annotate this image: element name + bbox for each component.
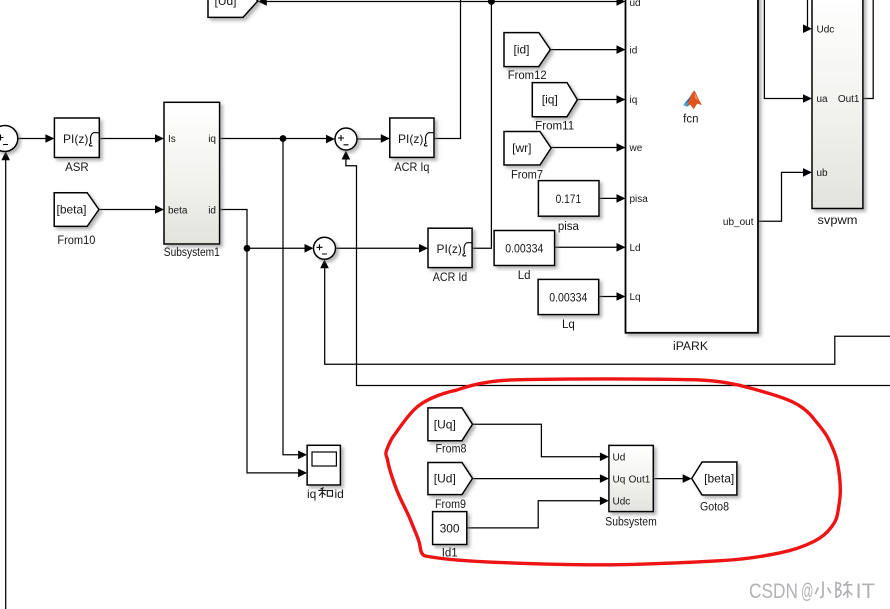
wire From11 to iPARK iq [577, 99, 622, 101]
svg-text:ub_out: ub_out [723, 217, 754, 228]
svg-text:Lq: Lq [562, 319, 575, 331]
from tag From10 beta [54, 193, 99, 227]
annotation red circle [386, 379, 840, 565]
arrowhead up into sum1 [342, 151, 351, 160]
sum signs sum1 [338, 135, 349, 145]
port text Subsystem1 [168, 134, 216, 216]
wire sum2 to ACR Id [336, 247, 425, 249]
sum signs sum2 [317, 244, 328, 254]
arrowhead into Subsystem1 Is [155, 134, 164, 143]
svg-text:pisa: pisa [630, 194, 649, 205]
svg-text:[id]: [id] [513, 43, 529, 57]
svg-text:beta: beta [168, 205, 188, 216]
svg-text:0.171: 0.171 [556, 192, 582, 206]
svg-text:From11: From11 [535, 120, 574, 132]
wire From10 to Subsystem1 beta [99, 209, 160, 211]
junction node top bus [488, 0, 495, 5]
from tag From12 id [504, 33, 550, 67]
arrowhead into iPARK iq [617, 95, 626, 104]
sum signs sumL [0, 135, 349, 255]
watermark chen glyph [836, 581, 852, 598]
wire id branch to sum2 [247, 247, 310, 249]
svg-text:Is: Is [168, 134, 176, 145]
arrowhead into iPARK Ld [617, 243, 626, 252]
svg-text:From7: From7 [511, 169, 543, 181]
svg-text:300: 300 [440, 522, 460, 536]
goto tag Goto8 beta [692, 462, 737, 495]
svg-text:From10: From10 [57, 235, 95, 247]
svg-text:CSDN: CSDN [749, 580, 798, 603]
junction node id branch [244, 245, 251, 252]
svg-text:ua: ua [817, 94, 829, 105]
svg-text:[iq]: [iq] [542, 93, 558, 107]
arrowhead into iPARK Lq [617, 292, 626, 301]
svg-text:[beta]: [beta] [56, 203, 86, 217]
wire iq branch down to scope in1 [283, 139, 303, 455]
wire Subsystem Out1 to Goto8 [653, 478, 688, 480]
svg-text:svpwm: svpwm [818, 215, 858, 227]
port text Subsystem bottom [613, 453, 651, 508]
wire ACR Iq output up to Uq (offscreen) [434, 0, 461, 139]
svg-text:ub: ub [817, 168, 829, 179]
svg-text:Ud: Ud [613, 453, 626, 464]
svg-text:Lq: Lq [630, 292, 641, 303]
block ACR Id PI(z) [428, 228, 472, 267]
wire From12 to iPARK id [550, 49, 622, 51]
block constant 300 Id1 [433, 512, 467, 545]
arrowhead into ASR [45, 134, 54, 143]
arrowhead up into sum2 [320, 259, 329, 268]
MATLAB fcn logo [683, 90, 702, 109]
sum block speed error (left edge) [0, 126, 18, 152]
block constant 0.00334 Lq [538, 279, 599, 314]
svg-text:iq: iq [630, 95, 638, 106]
arrowhead into svpwm ub [803, 168, 812, 177]
svg-text:Udc: Udc [817, 24, 835, 35]
svg-text:[Ud]: [Ud] [434, 471, 456, 485]
arrowhead into sum2 left [305, 244, 314, 253]
block iPARK MATLAB function [626, 0, 759, 333]
svg-text:id: id [630, 45, 638, 56]
wire ASR to Subsystem1 Is [99, 138, 160, 140]
integral glyph ACR Iq [424, 133, 433, 146]
arrowhead into svpwm ua [803, 94, 812, 103]
svg-text:[Uq]: [Uq] [434, 417, 456, 431]
block constant 0.00334 Ld [494, 231, 554, 266]
svg-text:Subsystem1: Subsystem1 [164, 247, 220, 259]
integral glyph ACR Id [463, 243, 472, 256]
sum block sum2 (id error) [314, 237, 336, 259]
wire pisa const to iPARK [599, 197, 622, 199]
junction node iq branch [280, 135, 287, 142]
from tag From8 Uq [428, 408, 473, 441]
arrowhead into Subsystem Ud [600, 453, 609, 462]
wire Subsystem1 id down to scope in2 [220, 210, 303, 473]
wire ua feed from top to svpwm [764, 0, 808, 99]
wire From7 to iPARK we [551, 147, 622, 149]
block ASR PI(z) [54, 118, 99, 158]
svg-text:Out1: Out1 [629, 474, 651, 485]
svg-text:ACR Id: ACR Id [433, 272, 468, 284]
port text iPARK [629, 0, 754, 303]
from tag From7 wr [504, 132, 551, 166]
svg-text:ud: ud [630, 0, 641, 9]
arrowhead into Goto Ud (points left) [258, 0, 267, 6]
from tag From11 iq [532, 83, 577, 117]
arrowhead into iPARK we [617, 143, 626, 152]
wire Udc feed from top to svpwm [808, 0, 809, 29]
arrowhead into Goto8 [683, 474, 692, 483]
arrowhead into scope in1 [298, 451, 307, 460]
arrowhead into iPARK id [617, 45, 626, 54]
arrowhead into iPARK ud [617, 0, 626, 6]
block ACR Iq PI(z) [390, 118, 434, 157]
svg-text:Ld: Ld [518, 270, 531, 282]
svg-text:iq: iq [208, 134, 216, 145]
svg-text:Uq: Uq [613, 474, 626, 485]
block constant 0.171 pisa [538, 181, 599, 217]
wire sumL to ASR [18, 138, 51, 140]
svg-text:ASR: ASR [65, 162, 89, 174]
svg-text:From12: From12 [508, 70, 547, 82]
svg-text:0.00334: 0.00334 [549, 291, 587, 305]
svg-text:[beta]: [beta] [704, 472, 734, 486]
wire From8 to Subsystem Ud [473, 424, 606, 457]
svg-text:we: we [629, 143, 643, 154]
wire svpwm Out1 up to top edge [863, 0, 873, 99]
wire sum1 to ACR Iq [357, 138, 386, 140]
block scope iq/id [307, 445, 340, 485]
wire Ld const to iPARK [555, 246, 622, 248]
svg-text:ACR Iq: ACR Iq [394, 162, 429, 174]
sum block sum1 (iq error) [335, 128, 357, 150]
svg-text:Udc: Udc [613, 497, 631, 508]
svg-text:PI(z): PI(z) [437, 242, 462, 256]
from tag From9 Ud [428, 463, 473, 495]
svg-text:fcn: fcn [683, 114, 698, 126]
svg-text:[Ud]: [Ud] [214, 0, 236, 8]
svg-text:Subsystem: Subsystem [605, 516, 657, 528]
svg-text:From9: From9 [435, 499, 466, 511]
svg-text:id: id [335, 487, 344, 501]
wire From9 to Subsystem Uq [473, 478, 606, 480]
block Subsystem1 [164, 102, 220, 244]
svg-text:pisa: pisa [558, 221, 580, 233]
arrowhead into svpwm Udc [803, 24, 812, 33]
wire top Ud bus [258, 1, 622, 3]
watermark CSDN [749, 580, 875, 603]
scope screen [312, 452, 336, 466]
text PI(z) ASR [63, 132, 472, 256]
svg-text:iPARK: iPARK [673, 341, 708, 353]
wire speed feedback from bottom edge to sumL [5, 154, 7, 609]
svg-text:Goto8: Goto8 [700, 501, 729, 513]
arrowhead into Subsystem Uq [600, 474, 609, 483]
arrowhead into ACR Iq [381, 134, 390, 143]
arrowhead into sum1 left [326, 135, 335, 144]
arrowhead into ACR Id [419, 244, 428, 253]
block Subsystem (bottom) [609, 445, 653, 511]
wire 300 const to Subsystem Udc [467, 501, 605, 528]
goto tag Ud (top, clipped) [208, 0, 258, 17]
svg-text:id: id [208, 205, 216, 216]
arrowhead into Subsystem1 beta [155, 205, 164, 214]
arrowhead into scope in2 [298, 469, 307, 478]
arrowhead into iPARK pisa [617, 194, 626, 203]
svg-text:PI(z): PI(z) [63, 132, 88, 146]
label iq(he)id scope [307, 487, 344, 501]
svg-text:Out1: Out1 [838, 94, 860, 105]
svg-text:From8: From8 [436, 443, 467, 455]
arrowhead up into sumL [1, 151, 10, 160]
port text svpwm [817, 24, 860, 179]
wire feedback id from right edge to sum2 [325, 262, 890, 364]
svg-text:0.00334: 0.00334 [505, 242, 543, 256]
arrowhead into Subsystem Udc [600, 497, 609, 506]
integral glyph ASR [89, 133, 98, 146]
svg-text:iq: iq [307, 487, 316, 501]
block svpwm [812, 0, 863, 209]
wire Lq const to iPARK [599, 296, 622, 298]
svg-text:Ld: Ld [630, 243, 641, 254]
wire iPARK ub_out to svpwm ub [758, 172, 808, 221]
svg-text:PI(z): PI(z) [398, 132, 423, 146]
wire ACR Id output up to top bus [472, 2, 491, 249]
wire feedback iq from right edge to sum1 [346, 153, 890, 386]
svg-text:IT: IT [856, 580, 876, 603]
svg-text:[wr]: [wr] [512, 141, 531, 155]
svg-text:@: @ [801, 580, 814, 603]
wire Subsystem1 iq to sum1 [220, 138, 331, 140]
watermark xiao glyph [815, 582, 831, 598]
